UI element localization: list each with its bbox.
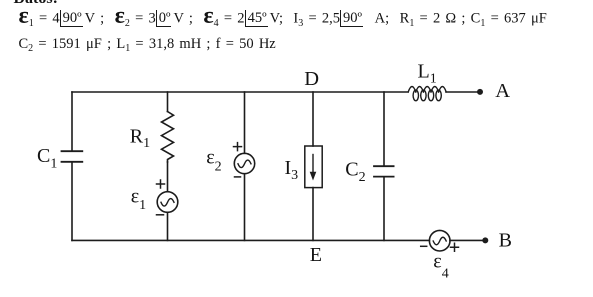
wire: C2 to bottom rail xyxy=(383,177,385,240)
svg-text:R1: R1 xyxy=(130,125,150,151)
node A dot xyxy=(477,89,483,95)
wire: e2 to bottom rail xyxy=(244,174,246,241)
svg-text:ε2: ε2 xyxy=(206,146,221,174)
minus sign of e4 xyxy=(421,245,427,247)
wire: top rail D xyxy=(72,91,408,93)
svg-text:E: E xyxy=(310,244,322,266)
wire: R1 branch top xyxy=(167,92,169,112)
current source I3 box xyxy=(305,146,322,188)
wire: R1 to e1 xyxy=(167,162,169,192)
plus sign of e4 xyxy=(451,243,459,251)
plus sign of e1 xyxy=(157,180,165,188)
given data line 1 xyxy=(19,10,547,28)
svg-text:B: B xyxy=(499,230,512,252)
minus sign of e2 xyxy=(235,176,241,178)
svg-text:ε1: ε1 xyxy=(131,185,146,213)
wire: C2 branch top xyxy=(383,92,385,166)
capacitor C1 xyxy=(62,151,83,162)
heading "Datos:" (cut off at top) xyxy=(14,0,58,8)
wire: e2 branch top xyxy=(244,92,246,153)
svg-text:L1: L1 xyxy=(418,61,437,87)
svg-text:A: A xyxy=(495,80,510,102)
source e2 sine xyxy=(238,160,251,168)
wire: bottom rail E xyxy=(72,239,429,241)
wire: I3 to bottom rail xyxy=(312,188,314,241)
source e4 sine xyxy=(433,237,446,245)
svg-text:C2: C2 xyxy=(345,159,365,186)
source e1 circle xyxy=(157,192,178,213)
resistor R1 xyxy=(162,112,174,163)
svg-text:D: D xyxy=(304,68,319,90)
svg-text:ε4: ε4 xyxy=(433,251,448,282)
wire: left branch lower xyxy=(71,163,73,241)
source e4 circle xyxy=(429,230,450,251)
wire: left branch upper xyxy=(71,92,73,150)
capacitor C2 xyxy=(374,166,394,176)
plus sign of e2 xyxy=(234,143,242,151)
wire: bottom rail from source e4 to node B xyxy=(450,239,483,241)
given data line 2 xyxy=(19,36,276,53)
source e2 circle xyxy=(234,153,254,173)
source e1 sine xyxy=(161,199,174,207)
node B dot xyxy=(482,237,488,243)
wire: e1 to bottom rail xyxy=(167,212,169,240)
svg-text:I3: I3 xyxy=(285,157,299,183)
wire: I3 branch top xyxy=(312,92,314,146)
inductor L1 xyxy=(408,87,446,101)
svg-text:C1: C1 xyxy=(37,145,57,172)
current source I3 arrow xyxy=(312,155,314,173)
wire: top rail from inductor to node A xyxy=(446,91,479,93)
minus sign of e1 xyxy=(157,214,164,216)
